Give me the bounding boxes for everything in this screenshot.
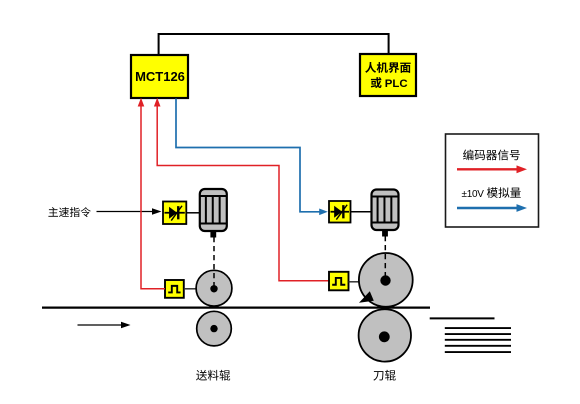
wire: drive U2 to motor M2 [351, 211, 372, 213]
shaft (dashed) motor M1 to feed roller axle [213, 237, 215, 287]
rotation direction arrowhead on knife roller [359, 291, 374, 303]
feed roller top [196, 270, 232, 306]
knife roller top [359, 253, 413, 307]
servo drive U2 [329, 201, 351, 223]
encoder E1 [165, 280, 184, 298]
legend label 编码器信号 [463, 149, 520, 160]
svg-text:PLC: PLC [385, 78, 408, 90]
legend blue arrow (±10V analog) [457, 204, 527, 212]
stack of cut sheets [445, 328, 511, 352]
wire: drive U1 to motor M1 [186, 212, 200, 214]
wire: speed command arrow into drive U1 [97, 208, 162, 215]
controller box MCT126 [131, 55, 188, 98]
legend red arrow (encoder signal) [457, 165, 527, 173]
legend label ±10V 模拟量 [462, 187, 521, 200]
motor M2 [372, 190, 399, 237]
label 送料辊 (feed roller) [196, 370, 230, 381]
svg-text:MCT126: MCT126 [135, 69, 185, 84]
web / material line [42, 306, 430, 308]
motor M1 [200, 189, 227, 238]
svg-text:±10V: ±10V [462, 189, 485, 200]
cut sheet (top, offset) [430, 317, 495, 319]
red wire: encoder E2 feedback to MCT126 [154, 98, 330, 281]
feed roller axle dot [210, 285, 217, 292]
wire: encoder E1 to feed roller shaft [184, 288, 197, 290]
knife roller bottom [359, 309, 411, 361]
red wire: encoder E1 feedback to MCT126 [138, 98, 165, 289]
legend box [446, 134, 539, 227]
blue wire: MCT126 ±10V output to drive U2 [176, 99, 328, 216]
encoder E2 [329, 272, 349, 291]
shaft (dashed) motor M2 to knife roller axle [384, 236, 386, 278]
servo drive U1 [163, 202, 186, 225]
label 刀辊 (knife roller) [373, 370, 395, 381]
label 主速指令 (main speed command) [48, 207, 90, 217]
web travel direction arrow [78, 322, 131, 329]
knife roller axle dot [380, 275, 390, 285]
feed roller bottom [197, 311, 232, 346]
wire: MCT126 top to HMI/PLC box [159, 34, 389, 55]
HMI/PLC box 人机界面 或 PLC [360, 54, 416, 96]
wire: encoder E2 to knife roller shaft [349, 281, 360, 283]
